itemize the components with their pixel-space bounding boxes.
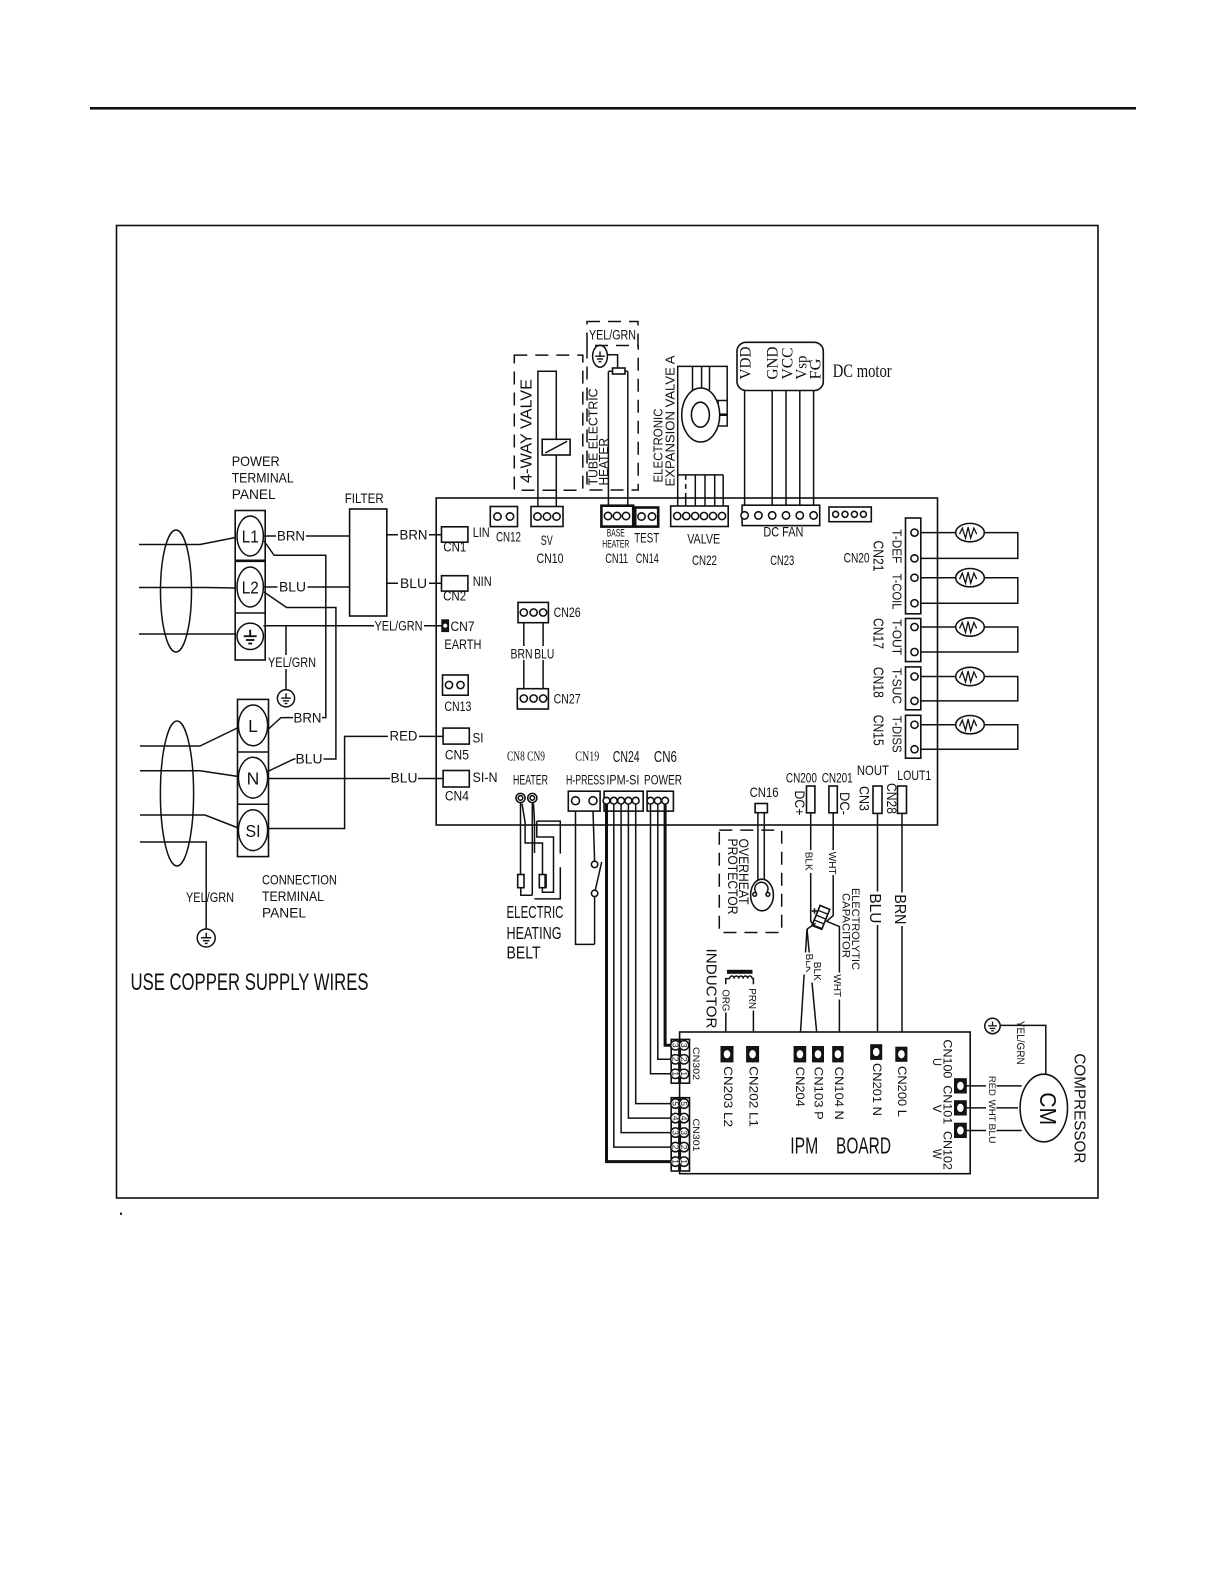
svg-text:DC+: DC+ — [792, 791, 807, 816]
wire BRN CN26 to CN27 — [523, 623, 525, 694]
wire PRN to CN202 — [752, 1011, 754, 1047]
IPM board outline — [680, 1032, 971, 1174]
svg-text:WHT: WHT — [987, 1100, 997, 1123]
wire BLU N up to L2 — [264, 592, 336, 772]
svg-text:5: 5 — [679, 1101, 689, 1106]
svg-text:CN6: CN6 — [654, 749, 677, 766]
svg-text:WHT: WHT — [826, 852, 838, 876]
svg-text:TERMINAL: TERMINAL — [262, 888, 324, 904]
svg-text:BLU: BLU — [391, 771, 418, 786]
CN302 pin row 1 — [671, 1069, 680, 1078]
wire to SI — [140, 815, 238, 828]
connector CN101 — [955, 1101, 967, 1115]
heater pin CN8 — [516, 793, 525, 802]
power supply cable sheath — [161, 530, 192, 652]
svg-text:YEL/GRN: YEL/GRN — [186, 890, 234, 905]
wire RED SI to CN5 — [268, 736, 444, 828]
connector CN3 NOUT — [873, 786, 882, 813]
svg-text:SV: SV — [541, 532, 553, 548]
wire H-PRESS right to switch — [593, 811, 595, 861]
EEV wires to CN22 — [678, 475, 724, 507]
svg-text:CN200 L: CN200 L — [895, 1066, 907, 1118]
svg-text:T-COIL: T-COIL — [890, 574, 904, 610]
svg-text:CN23: CN23 — [770, 552, 794, 568]
connector CN103 — [813, 1047, 824, 1062]
label BLU — [866, 892, 882, 926]
svg-text:DC motor: DC motor — [833, 361, 893, 382]
svg-text:CN21: CN21 — [870, 541, 887, 572]
tube electric heater dashed enclosure — [587, 346, 638, 491]
svg-text:TERMINAL: TERMINAL — [232, 470, 294, 486]
wire BRN L1 to filter — [263, 535, 349, 537]
svg-text:CN201: CN201 — [822, 771, 853, 786]
DC motor connector box — [737, 342, 823, 390]
thermistor T-DEF — [956, 523, 985, 541]
label ORG — [720, 988, 731, 1013]
thermistor T-OUT — [956, 618, 985, 636]
wire SV pin1 to valve — [538, 371, 556, 511]
svg-text:IPM-SI: IPM-SI — [606, 773, 639, 788]
wire ORG to CN203 — [725, 1013, 727, 1047]
main control board outline — [436, 498, 937, 825]
wire sensor loop T-COIL — [918, 578, 1018, 604]
wire sensor loop T-DISS — [918, 725, 1018, 750]
wire CN9 down — [531, 803, 533, 896]
wire BLU L2 to filter — [263, 586, 349, 588]
connector CN201 (IPM) — [871, 1045, 882, 1060]
connector CN22 VALVE — [671, 506, 729, 527]
svg-text:N: N — [247, 768, 260, 788]
connector CN1 LIN — [442, 527, 468, 542]
connector CN10 SV — [531, 507, 563, 527]
svg-text:BRN: BRN — [400, 528, 428, 543]
svg-text:PRN: PRN — [746, 988, 758, 1009]
svg-text:CN7: CN7 — [451, 619, 475, 634]
CN301 pin row 2 — [671, 1142, 680, 1151]
svg-text:CN301: CN301 — [690, 1119, 701, 1152]
connector CN20 — [829, 507, 871, 522]
svg-text:CN10: CN10 — [537, 550, 564, 566]
heater element body — [608, 371, 627, 506]
svg-text:L: L — [248, 716, 258, 736]
belt resistor R1 — [518, 875, 524, 888]
svg-text:PANEL: PANEL — [232, 486, 276, 502]
EEV wire bus — [678, 474, 724, 476]
svg-text:2: 2 — [679, 1145, 689, 1150]
svg-text:PROTECTOR: PROTECTOR — [725, 839, 740, 915]
connector CN201 DC- — [829, 786, 837, 813]
EEV dashed wire — [685, 475, 687, 496]
wire CN6 pin3 to CN302-3 (thick) — [665, 804, 671, 1045]
svg-text:VALVE: VALVE — [687, 531, 720, 547]
svg-text:CN3: CN3 — [857, 786, 872, 811]
connector CN19 — [568, 791, 600, 811]
svg-text:BRN: BRN — [277, 529, 305, 544]
svg-text:H-PRESS: H-PRESS — [566, 773, 605, 788]
svg-text:BLU: BLU — [534, 647, 554, 662]
EEV motor top frame — [693, 366, 710, 391]
CN302 pin row 2 — [671, 1055, 680, 1064]
svg-text:1: 1 — [671, 1159, 681, 1164]
svg-text:YEL/GRN: YEL/GRN — [1014, 1021, 1026, 1065]
terminal SI — [238, 810, 267, 851]
wire to N — [140, 771, 238, 777]
svg-text:CONNECTION: CONNECTION — [262, 872, 337, 888]
svg-text:3: 3 — [679, 1043, 689, 1048]
svg-text:YEL/GRN: YEL/GRN — [268, 655, 316, 670]
wire BLU N to CN4 — [268, 778, 444, 780]
terminal L — [238, 705, 267, 746]
inductor winding — [726, 976, 754, 984]
ground symbol (compressor) — [985, 1018, 1000, 1033]
svg-text:BLU: BLU — [400, 576, 427, 591]
svg-text:DC FAN: DC FAN — [763, 523, 803, 539]
label BRN — [891, 893, 907, 927]
svg-text:L1: L1 — [242, 527, 259, 547]
terminal L2 — [237, 567, 263, 607]
connector CN102 — [955, 1123, 967, 1137]
svg-text:T-OUT: T-OUT — [890, 619, 904, 655]
wire sensor loop T-SUC — [918, 677, 1018, 701]
connector CN17 — [906, 619, 921, 662]
top horizontal rule — [90, 107, 1136, 110]
svg-text:CN15: CN15 — [870, 715, 887, 746]
label RED WHT BLU — [986, 1075, 997, 1097]
connector CN6 — [647, 791, 673, 811]
CN301 pin row 1 — [671, 1157, 680, 1166]
svg-text:CN17: CN17 — [870, 618, 887, 649]
connector CN200 (IPM) — [896, 1047, 907, 1061]
thermistor T-DISS — [956, 716, 985, 734]
svg-text:CN20: CN20 — [844, 550, 870, 566]
wire BLU CN3 to CN201 — [877, 813, 879, 1044]
svg-text:U: U — [930, 1058, 942, 1066]
svg-text:BLK: BLK — [811, 962, 823, 981]
wire WHT CN201 to CN104 — [826, 813, 839, 1047]
svg-text:1: 1 — [679, 1159, 689, 1164]
thermistor T-COIL — [956, 569, 985, 587]
CN301 pin row 4 — [671, 1113, 680, 1122]
wire CN102 to compressor W — [966, 1130, 1021, 1132]
connector CN203 — [721, 1047, 733, 1062]
svg-text:CN28: CN28 — [884, 783, 899, 814]
svg-text:ELECTRIC: ELECTRIC — [507, 902, 564, 922]
svg-text:CN5: CN5 — [445, 748, 469, 763]
connector CN301 — [671, 1098, 689, 1171]
belt resistor R2 — [539, 875, 545, 888]
connector CN204 — [794, 1047, 806, 1062]
svg-text:BRN: BRN — [891, 894, 908, 924]
EEV side gear box — [718, 401, 727, 427]
svg-text:4: 4 — [679, 1116, 689, 1121]
connector CN5 SI — [443, 728, 469, 744]
wires CN16 to overheat protector — [758, 813, 764, 880]
filter — [350, 509, 387, 616]
wire BRN CN28 to CN200 — [901, 813, 903, 1047]
svg-text:CN201 N: CN201 N — [870, 1063, 882, 1116]
CN302 pin row 3 — [671, 1041, 680, 1050]
connector CN11 BASE HEATER — [601, 506, 633, 527]
4-way valve dashed enclosure — [514, 355, 583, 490]
electrolytic capacitor — [812, 905, 830, 929]
svg-text:T-DISS: T-DISS — [890, 716, 904, 753]
svg-text:BLK: BLK — [803, 852, 815, 871]
wire CN24 pin2 to CN301-2 — [614, 804, 671, 1147]
svg-text:BLU: BLU — [866, 893, 883, 923]
connector CN13 — [443, 675, 469, 695]
wire sensor loop T-OUT — [918, 627, 1018, 652]
svg-text:T-DEF: T-DEF — [890, 529, 904, 563]
wire R1 return to CN9 — [521, 888, 533, 896]
connector CN15 — [906, 715, 921, 758]
heater element cap — [613, 368, 626, 374]
svg-text:CN16: CN16 — [750, 784, 779, 800]
CN301 pin row 3 — [671, 1128, 680, 1137]
wire BRN L up to L1 — [264, 541, 326, 731]
compressor CM — [1020, 1074, 1067, 1142]
svg-text:BRN: BRN — [294, 711, 322, 726]
label BLK — [803, 850, 815, 873]
YEL/GRN dashed label box — [587, 322, 638, 346]
svg-text:COMPRESSOR: COMPRESSOR — [1071, 1053, 1088, 1163]
wire CN6 pin2 to CN302-2 — [658, 804, 671, 1059]
power terminal panel block — [235, 511, 265, 661]
label YEL/GRN (compressor) — [1013, 1020, 1025, 1059]
connector CN2 NIN — [442, 576, 468, 591]
connector CN24 — [604, 791, 643, 811]
wire BLK capacitor to CN103 — [807, 929, 818, 1046]
svg-text:CN19: CN19 — [575, 749, 599, 764]
wire CN24 pin5 to CN301-5 — [636, 804, 671, 1104]
svg-text:CN22: CN22 — [692, 552, 717, 568]
svg-text:3: 3 — [671, 1130, 681, 1135]
overheat protector body — [751, 879, 774, 911]
svg-text:BLU: BLU — [296, 752, 323, 767]
svg-text:2: 2 — [679, 1057, 689, 1062]
svg-text:1: 1 — [671, 1071, 681, 1076]
wire to earth terminal — [139, 633, 237, 635]
svg-text:CAPACITOR: CAPACITOR — [839, 893, 851, 958]
svg-text:BOARD: BOARD — [836, 1133, 891, 1159]
svg-text:V: V — [930, 1105, 942, 1113]
svg-text:HEATING: HEATING — [507, 923, 562, 943]
svg-text:CN202 L1: CN202 L1 — [747, 1066, 759, 1127]
svg-text:W: W — [930, 1149, 942, 1159]
svg-text:IPM: IPM — [790, 1133, 818, 1159]
wire to L2 — [139, 587, 237, 590]
wire CN8 to belt resistor R2 — [522, 804, 543, 875]
wire BLU filter to CN2 — [387, 582, 442, 584]
svg-text:RED: RED — [987, 1076, 997, 1097]
svg-text:HEATER: HEATER — [513, 773, 548, 788]
svg-text:ORG: ORG — [719, 989, 731, 1011]
connector CN18 — [906, 667, 921, 710]
wire to cable earth — [140, 842, 206, 929]
svg-text:TEST: TEST — [634, 530, 659, 546]
svg-text:USE COPPER SUPPLY WIRES: USE COPPER SUPPLY WIRES — [131, 969, 369, 996]
svg-text:SI: SI — [246, 821, 261, 841]
svg-text:CM: CM — [1035, 1092, 1061, 1125]
branch wire down to ground symbol — [285, 626, 287, 690]
wire BLK capacitor to CN204 — [807, 923, 816, 929]
svg-text:EARTH: EARTH — [444, 637, 481, 652]
wire H-PRESS left — [576, 811, 595, 945]
label YEL/GRN (panel earth) — [267, 655, 317, 669]
belt outline — [535, 821, 561, 899]
svg-text:2: 2 — [671, 1145, 681, 1150]
CN301 pin row 5 — [671, 1099, 680, 1108]
wire ground to heater top — [607, 355, 617, 368]
svg-text:LOUT1: LOUT1 — [897, 767, 931, 783]
svg-text:SI-N: SI-N — [473, 770, 498, 785]
connector CN100 — [955, 1079, 967, 1093]
inductor core bar — [727, 970, 753, 974]
heater pin CN9 — [528, 793, 537, 802]
svg-text:CN200: CN200 — [786, 771, 817, 786]
svg-text:4-WAY VALVE: 4-WAY VALVE — [519, 379, 536, 483]
wire to L — [140, 728, 238, 747]
svg-text:LIN: LIN — [473, 525, 490, 540]
wire ground to compressor — [1000, 1025, 1046, 1074]
svg-text:EXPANSION VALVE A: EXPANSION VALVE A — [663, 355, 677, 487]
thermistor T-SUC — [956, 667, 985, 685]
EEV motor inner — [691, 402, 709, 427]
wire CN24 pin3 to CN301-3 — [621, 804, 671, 1133]
svg-text:WHT: WHT — [831, 974, 843, 998]
wire R2 return — [537, 821, 554, 892]
ground symbol cable earth — [197, 929, 215, 947]
wire CN24 pin4 to CN301-4 — [628, 804, 670, 1118]
svg-text:CN203 L2: CN203 L2 — [721, 1066, 733, 1127]
svg-text:FG: FG — [808, 358, 825, 379]
connection supply cable sheath — [160, 721, 193, 866]
wire sensor loop T-DEF — [918, 533, 1018, 559]
svg-text:CN24: CN24 — [613, 749, 640, 766]
svg-text:INDUCTOR: INDUCTOR — [703, 949, 719, 1029]
wires DC motor to CN23 — [745, 391, 814, 508]
svg-text:CN1: CN1 — [443, 540, 466, 555]
svg-text:BLU: BLU — [987, 1124, 997, 1144]
svg-text:CN27: CN27 — [554, 692, 581, 707]
wire BLK CN200 to capacitor — [811, 813, 816, 924]
svg-text:CN11: CN11 — [605, 550, 628, 566]
terminal N — [238, 757, 267, 798]
svg-text:PANEL: PANEL — [262, 905, 306, 921]
connector CN27 — [517, 689, 548, 709]
svg-text:L2: L2 — [242, 578, 259, 598]
svg-text:YEL/GRN: YEL/GRN — [375, 619, 423, 634]
connector CN12 — [490, 507, 517, 527]
ground symbol (tube heater) — [593, 345, 608, 367]
pressure switch — [591, 861, 597, 867]
svg-text:5: 5 — [671, 1101, 681, 1106]
wire valve coil to SV pin3 — [555, 455, 557, 511]
connector CN26 — [518, 602, 548, 622]
connector CN7 EARTH — [442, 620, 449, 632]
connector CN28 LOUT1 — [898, 786, 907, 813]
svg-text:1: 1 — [679, 1071, 689, 1076]
svg-text:BLU: BLU — [279, 580, 306, 595]
svg-text:CN13: CN13 — [444, 699, 471, 714]
connector CN4 SI-N — [443, 771, 469, 788]
label WHT — [826, 850, 839, 875]
svg-text:RED: RED — [390, 729, 418, 744]
connection terminal panel block — [238, 699, 269, 856]
svg-text:4: 4 — [671, 1116, 681, 1121]
terminal L1 — [237, 516, 263, 556]
label WHT lower — [831, 973, 843, 1000]
ground symbol below power panel — [277, 690, 294, 707]
svg-text:POWER: POWER — [644, 773, 682, 788]
svg-text:CN104 N: CN104 N — [832, 1067, 844, 1120]
svg-text:3: 3 — [679, 1130, 689, 1135]
svg-text:CN302: CN302 — [690, 1047, 701, 1080]
svg-text:BRN: BRN — [511, 647, 533, 662]
svg-text:CN18: CN18 — [870, 667, 887, 698]
svg-text:3: 3 — [671, 1043, 681, 1048]
svg-text:CN2: CN2 — [443, 589, 466, 604]
wire CN24 pin1 to CN301-1 (thick) — [607, 804, 671, 1162]
overheat protector dashed enclosure — [719, 830, 781, 932]
svg-text:CN4: CN4 — [445, 789, 469, 804]
svg-text:VDD: VDD — [738, 347, 755, 380]
connector CN21 — [906, 518, 921, 614]
capacitor polarity + — [812, 908, 817, 913]
connector CN16 — [755, 804, 767, 813]
svg-text:NIN: NIN — [473, 574, 492, 589]
svg-text:SI: SI — [473, 731, 484, 746]
connector CN202 — [747, 1047, 759, 1062]
connector CN302 — [671, 1039, 689, 1083]
wire CN6 pin1 to CN302-1 — [651, 804, 671, 1074]
connector CN200 DC+ — [807, 786, 815, 813]
svg-text:CN204: CN204 — [793, 1067, 805, 1108]
svg-text:CN8 CN9: CN8 CN9 — [507, 749, 545, 764]
svg-text:YEL/GRN: YEL/GRN — [589, 328, 636, 343]
wire CN9 slant — [534, 804, 535, 853]
connector CN104 — [833, 1047, 843, 1062]
earth terminal — [237, 623, 263, 649]
connector CN14 TEST — [635, 508, 658, 527]
wire earth terminal to CN7 EARTH — [263, 625, 441, 627]
electronic expansion valve outline — [678, 366, 728, 475]
svg-text:CN14: CN14 — [636, 550, 659, 566]
4-way valve coil — [542, 439, 570, 455]
svg-text:CN103 P: CN103 P — [812, 1067, 824, 1120]
wire BLU CN26 to CN27 — [542, 623, 544, 694]
wire CN101 to compressor V — [966, 1107, 1018, 1109]
wire CN8 to belt resistor R1 — [520, 803, 522, 875]
wire BRN filter to CN1 — [387, 534, 442, 536]
svg-text:CN12: CN12 — [496, 528, 521, 544]
svg-text:NOUT: NOUT — [857, 762, 889, 778]
svg-text:DC-: DC- — [837, 792, 852, 815]
svg-text:HEATER: HEATER — [602, 538, 629, 550]
connector CN23 DC FAN — [742, 505, 820, 525]
svg-text:FILTER: FILTER — [345, 490, 384, 506]
label PRN — [746, 987, 757, 1012]
label BLK BLK — [802, 953, 812, 975]
svg-text:BELT: BELT — [507, 943, 541, 963]
wire CN100 to compressor U — [966, 1085, 1021, 1087]
stray dot — [120, 1213, 122, 1216]
EEV motor outer — [682, 388, 720, 442]
wire to L1 — [139, 538, 236, 545]
svg-text:T-SUC: T-SUC — [890, 668, 904, 704]
svg-text:2: 2 — [671, 1057, 681, 1062]
svg-text:POWER: POWER — [232, 453, 280, 469]
svg-text:CN26: CN26 — [554, 605, 581, 620]
